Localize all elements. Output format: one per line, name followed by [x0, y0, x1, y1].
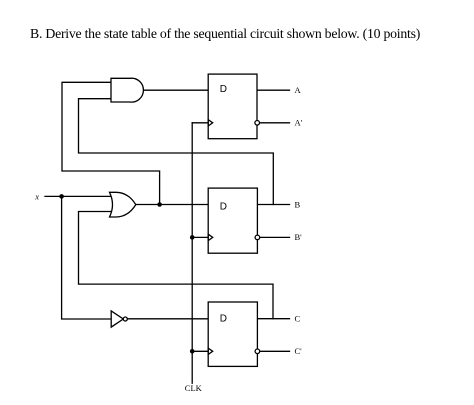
svg-text:B. Derive the state table of t: B. Derive the state table of the sequent… [30, 26, 420, 42]
wire: FF3 Q' output to label C' [260, 350, 290, 352]
D flip-flop U1 (A) box [208, 74, 257, 139]
wire: CLK vertical distribution line [191, 123, 193, 383]
wire: x input to OR gate input1 [45, 195, 114, 197]
svg-text:B': B' [295, 232, 303, 242]
wire: NOT output to FF3 D input [127, 318, 208, 320]
D flip-flop U1 Q' bubble [255, 121, 260, 126]
junction dot: x input branch [59, 194, 64, 199]
svg-text:A': A' [295, 118, 303, 128]
wire: FF3 Q output to label C [257, 318, 289, 320]
junction dot: OR output node [157, 202, 162, 207]
svg-text:C': C' [295, 346, 303, 356]
wire: FF1 clock stub [192, 122, 208, 124]
wire: FF3 clock stub [192, 350, 208, 352]
svg-text:A: A [295, 85, 302, 95]
D flip-flop U3 Q' bubble [255, 349, 260, 354]
NOT gate G3 bubble [123, 317, 127, 321]
junction dot: CLK to FF3 [190, 349, 195, 354]
D flip-flop U3 (C) box [208, 302, 257, 366]
svg-text:D: D [220, 84, 227, 95]
wire: AND output to FF1 D input [143, 89, 208, 91]
wire: FF2 Q output to label B [257, 204, 289, 206]
wire: AND input2 branch (from B node via x=78.5 vertical and y=153 horizontal) [79, 99, 274, 205]
junction dot: CLK to FF2 [190, 235, 195, 240]
svg-text:B: B [295, 199, 301, 209]
D flip-flop U2 Q' bubble [255, 235, 260, 240]
svg-text:D: D [220, 202, 227, 213]
svg-text:C: C [295, 314, 301, 324]
svg-text:D: D [220, 314, 227, 325]
svg-text:CLK: CLK [185, 383, 203, 393]
svg-text:x: x [34, 191, 39, 201]
wire: AND input1 branch (from OR output node, via x=62 vertical and y=171 horizontal) [62, 82, 160, 204]
wire: OR output to FF2 D input [136, 204, 208, 206]
wire: x branch down to NOT gate input [62, 196, 112, 319]
wire: OR input2 branch (from C node via x=78.5 vertical and y=284 horizontal) [79, 212, 274, 319]
OR gate G2 [110, 192, 136, 217]
NOT gate G3 triangle [111, 311, 123, 327]
AND gate G1 [111, 78, 143, 102]
wire: FF1 Q' output to label A' [260, 122, 290, 124]
wire: FF1 Q output to label A [257, 89, 289, 91]
D flip-flop U1 clock wedge [208, 120, 213, 126]
D flip-flop U2 (B) box [208, 188, 257, 253]
D flip-flop U3 clock wedge [208, 348, 213, 354]
wire: FF2 Q' output to label B' [260, 236, 290, 238]
D flip-flop U2 clock wedge [208, 234, 213, 240]
wire: FF2 clock stub [192, 236, 208, 238]
